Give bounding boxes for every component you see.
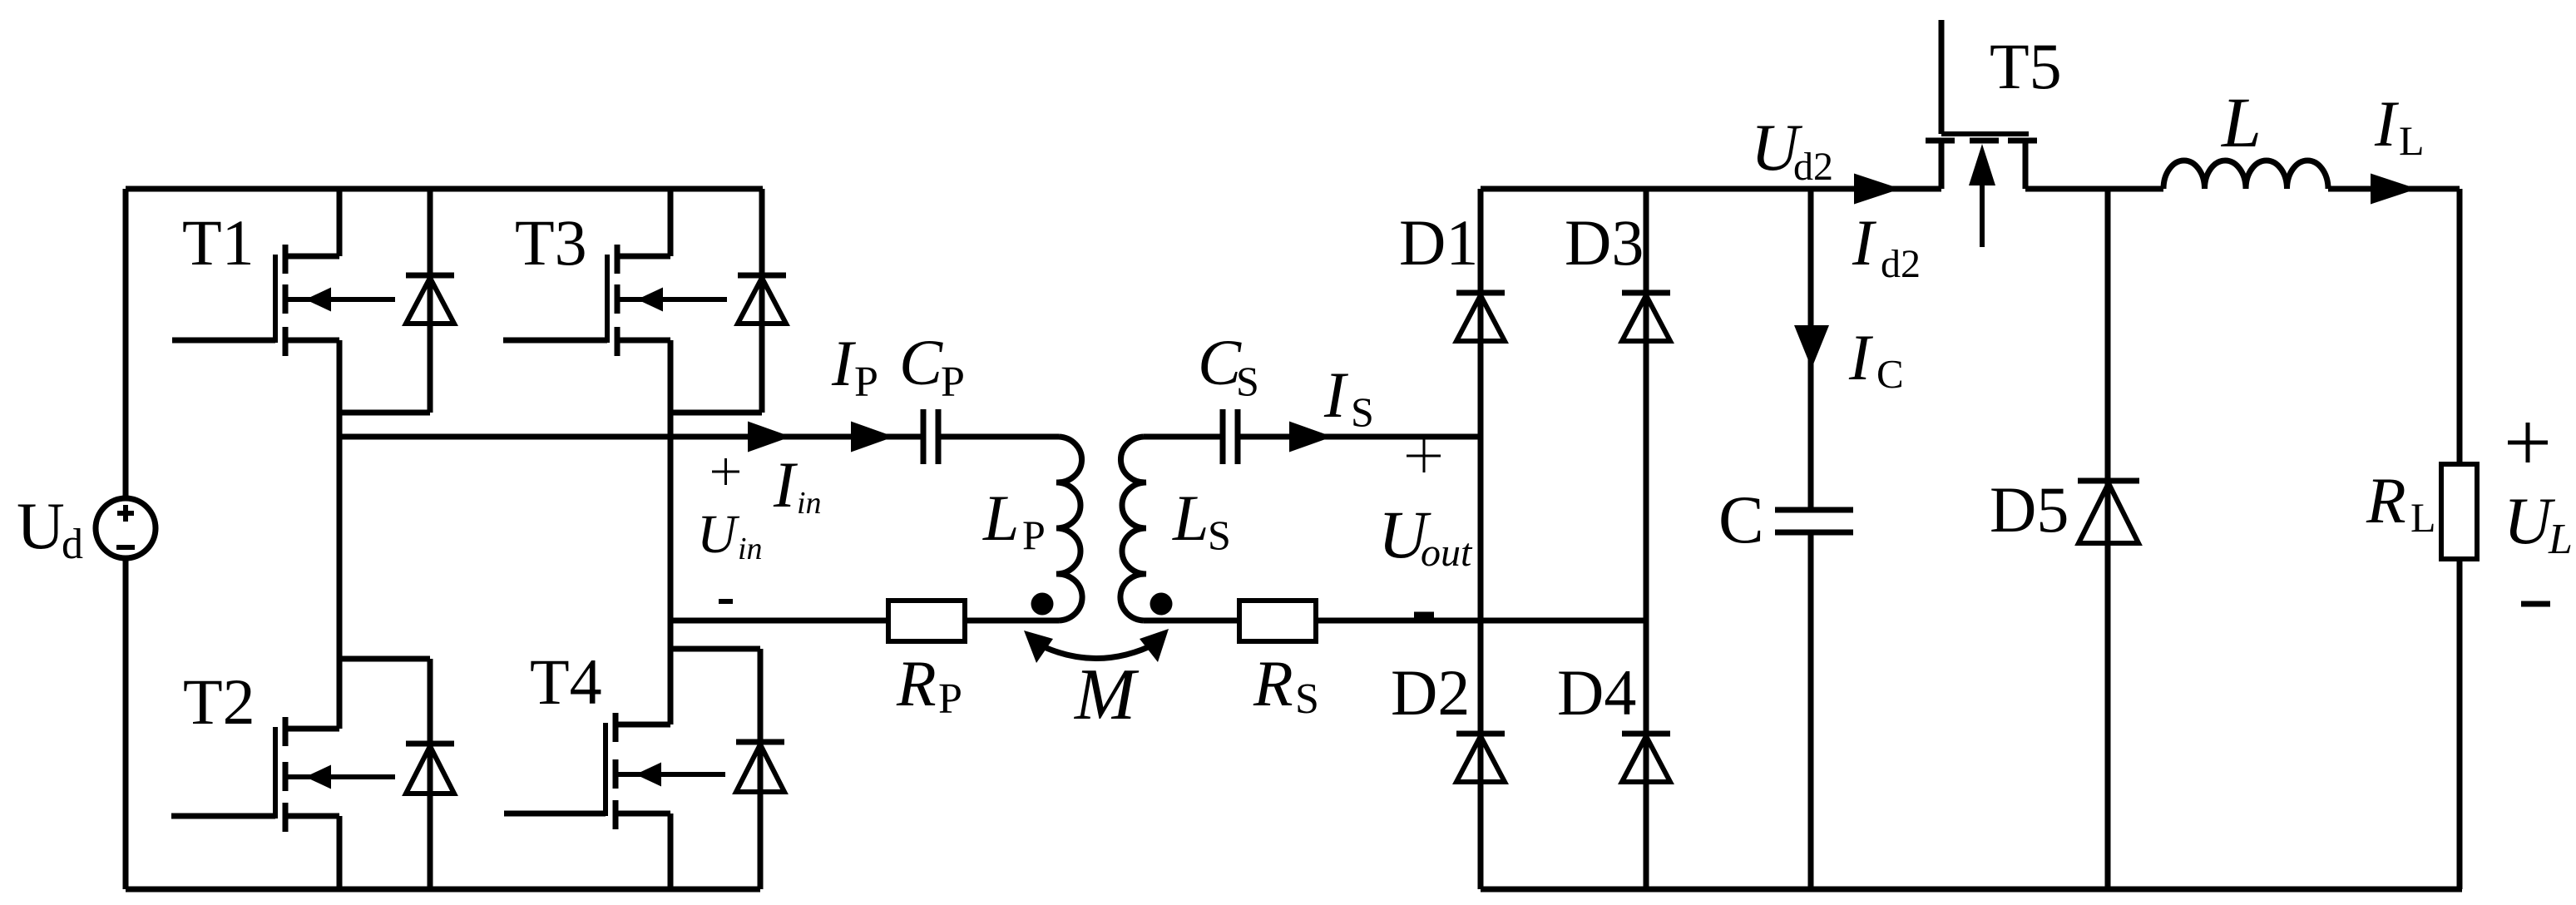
svg-text:L: L	[2410, 494, 2436, 541]
svg-text:I: I	[1852, 206, 1877, 279]
svg-text:I: I	[773, 448, 799, 521]
svg-text:P: P	[941, 359, 965, 406]
svg-text:out: out	[1421, 531, 1473, 575]
svg-text:S: S	[1236, 358, 1259, 404]
svg-text:C: C	[899, 326, 943, 398]
svg-text:I: I	[1848, 321, 1874, 393]
svg-text:D5: D5	[1990, 473, 2069, 546]
svg-text:L: L	[982, 482, 1019, 554]
svg-text:in: in	[797, 486, 822, 521]
svg-text:P: P	[1022, 512, 1046, 558]
svg-text:L: L	[1172, 482, 1209, 554]
svg-text:R: R	[1253, 647, 1293, 720]
svg-text:D2: D2	[1391, 656, 1470, 729]
svg-text:T3: T3	[515, 206, 587, 279]
svg-text:U: U	[17, 490, 65, 563]
svg-text:d: d	[62, 521, 83, 568]
svg-text:T4: T4	[530, 645, 602, 718]
svg-text:S: S	[1295, 675, 1319, 723]
svg-text:S: S	[1208, 512, 1231, 558]
svg-text:in: in	[738, 532, 763, 566]
svg-text:d2: d2	[1881, 242, 1921, 286]
svg-text:I: I	[2374, 87, 2400, 160]
svg-text:D1: D1	[1399, 206, 1478, 279]
svg-text:L: L	[2220, 82, 2262, 162]
svg-text:C: C	[1876, 351, 1904, 397]
svg-text:T1: T1	[182, 206, 255, 279]
svg-text:M: M	[1073, 655, 1140, 735]
svg-text:L: L	[2399, 117, 2425, 164]
svg-text:D3: D3	[1565, 206, 1644, 279]
svg-text:P: P	[854, 359, 878, 406]
svg-text:R: R	[2366, 464, 2406, 537]
svg-text:d2: d2	[1793, 145, 1833, 189]
svg-text:S: S	[1351, 388, 1374, 435]
svg-text:I: I	[1323, 359, 1349, 431]
svg-text:L: L	[2548, 516, 2573, 563]
svg-text:U: U	[697, 504, 740, 565]
svg-text:P: P	[938, 675, 962, 723]
svg-text:T5: T5	[1990, 30, 2062, 102]
svg-text:D4: D4	[1557, 656, 1636, 729]
svg-text:I: I	[831, 327, 857, 399]
svg-text:C: C	[1718, 482, 1764, 557]
svg-text:R: R	[896, 647, 937, 720]
svg-text:T2: T2	[183, 665, 255, 738]
